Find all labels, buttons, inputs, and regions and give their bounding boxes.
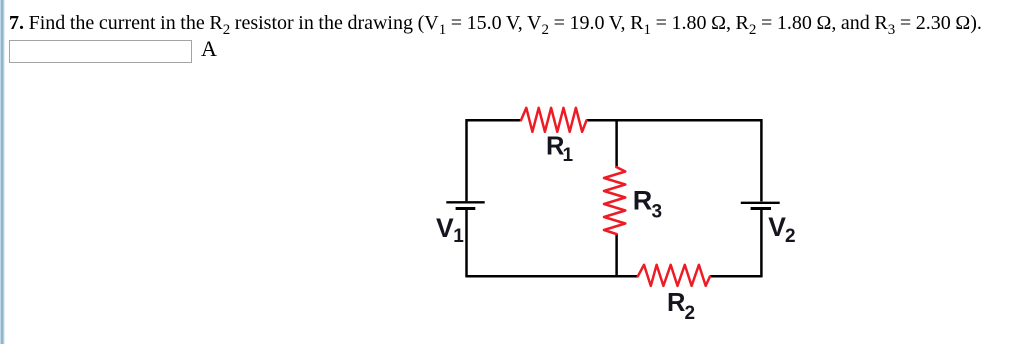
- svg-text:1: 1: [563, 145, 574, 166]
- svg-text:V: V: [768, 212, 786, 242]
- svg-text:1: 1: [453, 226, 464, 247]
- svg-text:R: R: [633, 186, 653, 216]
- svg-text:V: V: [436, 213, 454, 243]
- svg-text:2: 2: [785, 226, 796, 247]
- svg-text:3: 3: [652, 202, 663, 223]
- svg-text:R: R: [667, 289, 685, 317]
- svg-text:2: 2: [685, 303, 696, 324]
